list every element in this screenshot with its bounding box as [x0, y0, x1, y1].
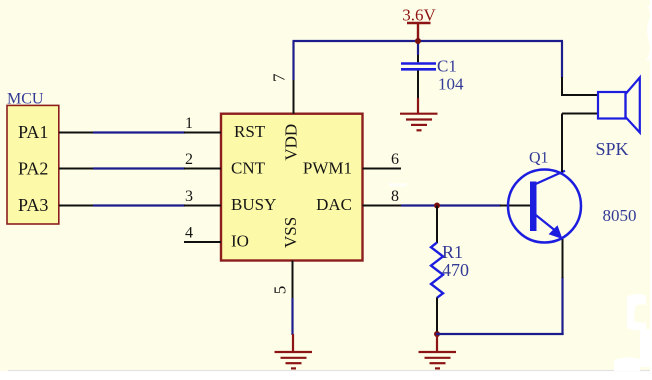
MCU pin stub PA3 — [59, 205, 94, 207]
svg-text:3: 3 — [185, 188, 193, 205]
svg-text:IO: IO — [231, 232, 249, 251]
wire pin8 to node — [401, 204, 501, 206]
resistor R1 — [431, 206, 443, 336]
wire pin7 up to rail — [292, 41, 294, 80]
MCU pin stub PA2 — [59, 168, 94, 170]
svg-text:7: 7 — [270, 73, 289, 82]
svg-text:BUSY: BUSY — [231, 195, 276, 214]
svg-text:VDD: VDD — [282, 124, 301, 161]
IC pin stub 5 (bottom) — [292, 261, 294, 300]
transistor Q1 — [508, 170, 581, 243]
right white edge — [650, 0, 652, 380]
svg-text:PWM1: PWM1 — [303, 159, 352, 178]
svg-text:PA1: PA1 — [18, 122, 48, 142]
ground under pin5 — [275, 334, 313, 368]
svg-text:5: 5 — [271, 286, 290, 295]
svg-text:470: 470 — [442, 260, 469, 280]
watermark streak — [389, 183, 407, 186]
svg-text:4: 4 — [185, 225, 193, 242]
wire PA2 to CNT — [93, 167, 185, 169]
transistor base pin stub — [500, 205, 530, 207]
svg-text:2: 2 — [185, 151, 193, 168]
speaker bottom pin — [562, 113, 599, 115]
IC pin stub 4 — [184, 241, 221, 243]
wire emitter to ground rail — [436, 333, 564, 335]
wire rail drop to C1 — [417, 41, 419, 55]
IC pin stub 3 — [184, 205, 221, 207]
svg-text:Q1: Q1 — [529, 150, 549, 167]
IC pin stub 7 (top) — [293, 79, 295, 114]
svg-text:6: 6 — [391, 151, 399, 168]
svg-text:MCU: MCU — [7, 91, 44, 108]
junction dot DAC node — [434, 203, 440, 209]
capacitor C1 — [401, 55, 436, 98]
junction dot at 3.6V rail — [415, 38, 421, 44]
IC pin stub 6 — [363, 168, 402, 170]
collector pin black — [561, 114, 563, 173]
IC pin stub 2 — [184, 168, 221, 170]
svg-text:PA2: PA2 — [18, 159, 48, 179]
svg-text:PA3: PA3 — [18, 195, 48, 215]
ground under C1 — [400, 98, 438, 130]
wire 3.6V rail horizontal — [293, 40, 564, 42]
speaker LS1 — [598, 78, 640, 133]
ground under R1 — [419, 334, 457, 368]
svg-text:C1: C1 — [437, 57, 457, 76]
MCU pin stub PA1 — [59, 132, 94, 134]
emitter pin black — [562, 239, 564, 278]
power symbol 3.6V — [407, 23, 431, 40]
speaker top pin — [562, 77, 599, 95]
svg-text:VSS: VSS — [281, 217, 300, 248]
svg-text:1: 1 — [185, 115, 193, 132]
bottom white band — [0, 371, 652, 380]
svg-text:3.6V: 3.6V — [402, 6, 436, 25]
svg-text:R1: R1 — [442, 242, 463, 262]
wire PA3 to BUSY — [93, 204, 185, 206]
IC pin stub 1 — [184, 132, 221, 134]
IC pin stub 8 — [363, 205, 402, 207]
wire pin5 down — [291, 298, 293, 335]
IC U1 box — [221, 114, 363, 261]
watermark blob right edge top — [646, 6, 652, 60]
svg-text:104: 104 — [438, 75, 464, 94]
svg-text:RST: RST — [234, 122, 266, 141]
watermark glyph bottom right — [614, 294, 652, 371]
wire up right side — [561, 277, 563, 335]
svg-text:DAC: DAC — [316, 195, 352, 214]
junction dot R1 bottom — [434, 331, 440, 337]
svg-text:CNT: CNT — [231, 159, 266, 178]
svg-text:SPK: SPK — [596, 139, 629, 159]
svg-text:8: 8 — [391, 188, 399, 205]
MCU box — [7, 105, 59, 224]
wire rail drop to speaker — [561, 41, 563, 78]
svg-text:8050: 8050 — [603, 206, 637, 225]
wire PA1 to RST — [93, 131, 185, 133]
